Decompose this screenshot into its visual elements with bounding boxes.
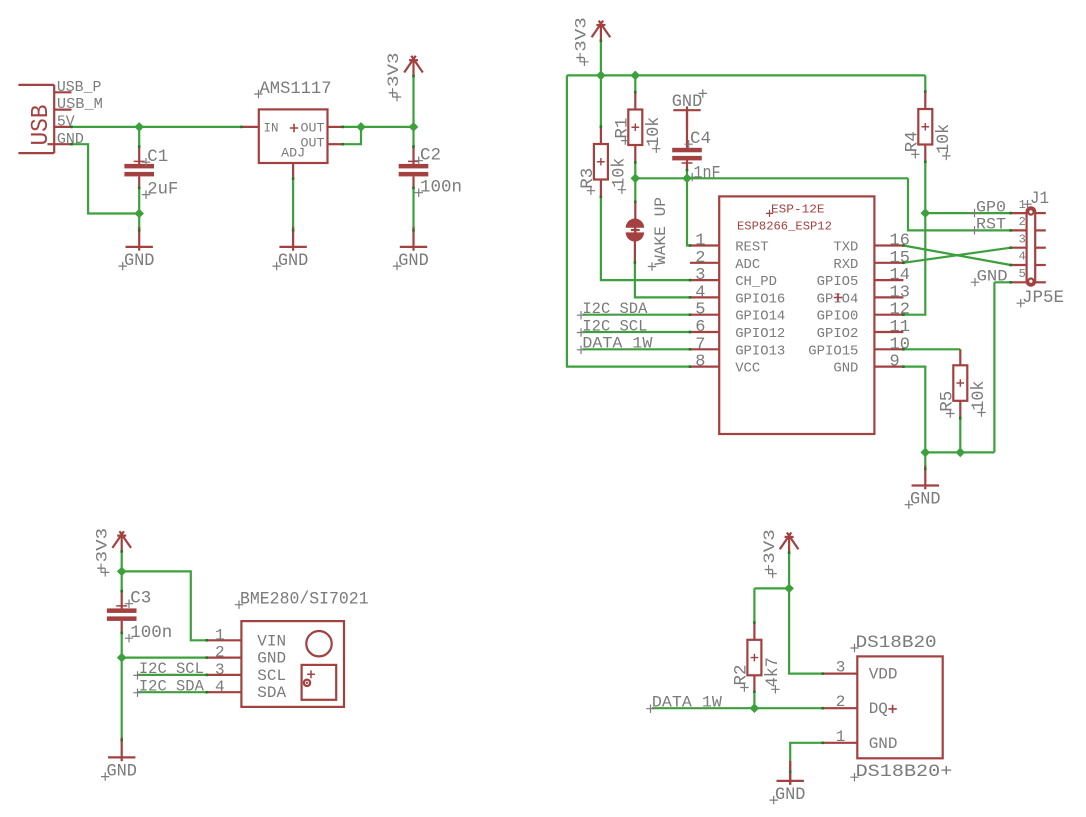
svg-text:DS18B20+: DS18B20+ bbox=[856, 762, 953, 782]
svg-text:+3V3: +3V3 bbox=[385, 53, 403, 99]
svg-text:GPIO13: GPIO13 bbox=[735, 343, 785, 359]
svg-text:4: 4 bbox=[695, 283, 705, 302]
svg-text:RXD: RXD bbox=[833, 257, 858, 273]
svg-text:I2C_SDA: I2C_SDA bbox=[139, 678, 205, 696]
svg-text:4: 4 bbox=[215, 678, 225, 696]
svg-text:OUT: OUT bbox=[301, 120, 325, 135]
svg-text:GPIO2: GPIO2 bbox=[817, 326, 859, 342]
svg-text:10k: 10k bbox=[609, 158, 629, 188]
svg-text:6: 6 bbox=[695, 318, 705, 337]
svg-text:16: 16 bbox=[890, 232, 910, 251]
svg-text:TXD: TXD bbox=[833, 240, 858, 256]
svg-text:12: 12 bbox=[890, 301, 910, 320]
svg-text:JP5E: JP5E bbox=[1022, 288, 1064, 308]
svg-text:I2C_SCL: I2C_SCL bbox=[582, 317, 647, 335]
svg-text:IN: IN bbox=[264, 120, 279, 135]
svg-text:5: 5 bbox=[1019, 267, 1026, 281]
svg-text:3: 3 bbox=[1019, 232, 1026, 246]
svg-text:+3V3: +3V3 bbox=[573, 17, 591, 63]
svg-text:RST: RST bbox=[976, 216, 1006, 234]
svg-text:3: 3 bbox=[836, 659, 846, 677]
svg-text:REST: REST bbox=[735, 240, 768, 256]
svg-text:2: 2 bbox=[695, 249, 705, 268]
svg-text:WAKE UP: WAKE UP bbox=[652, 197, 670, 265]
svg-text:1nF: 1nF bbox=[694, 163, 721, 183]
svg-text:GND: GND bbox=[869, 735, 898, 753]
svg-text:C1: C1 bbox=[147, 147, 168, 167]
svg-text:I2C_SDA: I2C_SDA bbox=[582, 300, 648, 318]
svg-text:GPIO16: GPIO16 bbox=[735, 291, 785, 307]
svg-text:VCC: VCC bbox=[735, 361, 760, 377]
svg-text:DATA_1W: DATA_1W bbox=[652, 694, 723, 712]
svg-text:DS18B20: DS18B20 bbox=[856, 633, 937, 653]
svg-text:R4: R4 bbox=[903, 131, 923, 152]
svg-text:GP0: GP0 bbox=[976, 198, 1006, 216]
svg-text:13: 13 bbox=[890, 283, 910, 302]
svg-text:VIN: VIN bbox=[257, 632, 286, 650]
svg-text:I2C_SCL: I2C_SCL bbox=[139, 660, 204, 678]
svg-text:GPIO0: GPIO0 bbox=[817, 309, 859, 325]
svg-text:AMS1117: AMS1117 bbox=[260, 79, 332, 99]
svg-text:GND: GND bbox=[257, 650, 286, 668]
svg-text:GND: GND bbox=[672, 92, 703, 112]
svg-text:+3V3: +3V3 bbox=[761, 529, 779, 575]
svg-text:10k: 10k bbox=[644, 117, 664, 147]
svg-text:USB_P: USB_P bbox=[57, 79, 102, 96]
svg-text:C4: C4 bbox=[690, 129, 711, 149]
svg-text:BME280/SI7021: BME280/SI7021 bbox=[240, 590, 369, 610]
svg-text:8: 8 bbox=[695, 353, 705, 372]
svg-text:GPIO12: GPIO12 bbox=[735, 326, 785, 342]
svg-text:GPIO14: GPIO14 bbox=[735, 309, 785, 325]
svg-text:11: 11 bbox=[890, 318, 910, 337]
svg-text:DATA_1W: DATA_1W bbox=[582, 335, 653, 353]
svg-text:10k: 10k bbox=[969, 381, 989, 411]
svg-text:GND: GND bbox=[278, 251, 309, 271]
svg-text:10: 10 bbox=[890, 335, 910, 354]
svg-text:GND: GND bbox=[910, 490, 941, 510]
svg-text:R1: R1 bbox=[613, 118, 633, 139]
svg-text:SDA: SDA bbox=[257, 684, 286, 702]
svg-text:4k7: 4k7 bbox=[763, 657, 783, 687]
svg-text:1: 1 bbox=[215, 626, 225, 644]
svg-text:R3: R3 bbox=[578, 168, 598, 189]
svg-text:10k: 10k bbox=[934, 124, 954, 154]
svg-text:3: 3 bbox=[695, 266, 705, 285]
svg-text:5: 5 bbox=[695, 301, 705, 320]
svg-text:100n: 100n bbox=[420, 178, 462, 198]
svg-text:4: 4 bbox=[1019, 250, 1026, 264]
svg-text:USB_M: USB_M bbox=[57, 96, 103, 113]
svg-text:14: 14 bbox=[890, 266, 910, 285]
svg-text:CH_PD: CH_PD bbox=[735, 274, 777, 290]
svg-text:GND: GND bbox=[106, 761, 137, 781]
svg-text:ESP-12E: ESP-12E bbox=[771, 203, 825, 217]
svg-text:SCL: SCL bbox=[257, 667, 286, 685]
svg-text:2: 2 bbox=[215, 644, 225, 662]
svg-text:GND: GND bbox=[398, 251, 429, 271]
svg-text:9: 9 bbox=[890, 353, 900, 372]
svg-text:DQ: DQ bbox=[869, 700, 888, 718]
svg-text:VDD: VDD bbox=[869, 666, 898, 684]
svg-text:2uF: 2uF bbox=[147, 179, 178, 199]
svg-text:ESP8266_ESP12: ESP8266_ESP12 bbox=[737, 220, 832, 234]
svg-text:2: 2 bbox=[836, 693, 846, 711]
svg-text:R5: R5 bbox=[938, 391, 958, 412]
svg-text:1: 1 bbox=[836, 728, 846, 746]
svg-text:GND: GND bbox=[775, 785, 806, 805]
svg-text:GPIO15: GPIO15 bbox=[808, 343, 858, 359]
svg-text:+3V3: +3V3 bbox=[93, 528, 111, 574]
svg-text:ADJ: ADJ bbox=[281, 146, 305, 161]
svg-text:GPIO5: GPIO5 bbox=[817, 274, 859, 290]
svg-text:ADC: ADC bbox=[735, 257, 760, 273]
svg-text:GND: GND bbox=[124, 251, 155, 271]
svg-text:15: 15 bbox=[890, 249, 910, 268]
svg-text:2: 2 bbox=[1019, 215, 1026, 229]
svg-text:C3: C3 bbox=[130, 589, 151, 609]
svg-text:J1: J1 bbox=[1030, 189, 1049, 209]
svg-text:GND: GND bbox=[833, 361, 858, 377]
svg-text:1: 1 bbox=[695, 232, 705, 251]
svg-text:R2: R2 bbox=[732, 665, 752, 686]
svg-text:7: 7 bbox=[695, 335, 705, 354]
svg-text:C2: C2 bbox=[420, 146, 441, 166]
svg-text:100n: 100n bbox=[130, 623, 172, 643]
svg-text:USB: USB bbox=[28, 105, 55, 146]
svg-text:3: 3 bbox=[215, 661, 225, 679]
